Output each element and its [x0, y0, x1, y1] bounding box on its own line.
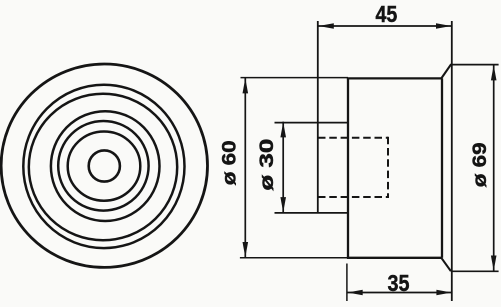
circle outer flange ø69 [1, 64, 207, 267]
dimension ø69 [470, 65, 497, 272]
wire hub bottom edge + ø30 extension [275, 212, 349, 214]
circle center hole [89, 150, 120, 181]
wire flange right face + 45/35 extension [451, 21, 453, 301]
circle bore ø20 [68, 132, 141, 201]
wire flange cone bottom slant [441, 258, 451, 271]
arrow right of 45 [436, 23, 451, 29]
arrow top of ø30 [280, 122, 286, 137]
wire flange bottom edge + ø69 extension [452, 270, 498, 272]
wire hub top edge + ø30 extension [275, 122, 349, 124]
svg-text:45: 45 [376, 1, 398, 27]
circle flange rim [23, 85, 184, 248]
circle cone base [29, 94, 177, 240]
wire flange left face [441, 78, 443, 257]
wire dim line 35 [347, 292, 452, 294]
hidden bore ø20 dashed [318, 137, 388, 198]
svg-text:ø 69: ø 69 [470, 142, 491, 187]
wire bore bottom hidden line [318, 196, 388, 198]
wire ø60 bottom extension [240, 257, 348, 259]
dimension 35 [347, 270, 452, 296]
dimension ø30 [257, 122, 286, 213]
arrow left of 35 [347, 290, 362, 296]
arrow bottom of ø30 [280, 197, 286, 212]
arrow top of ø69 [491, 65, 497, 80]
wire dim line ø60 [244, 78, 246, 258]
side view part outline [240, 21, 499, 301]
wire dim line 45 [318, 25, 452, 27]
wire bore end hidden line [387, 137, 389, 198]
dimension ø60 [220, 78, 249, 258]
arrow left of 45 [319, 23, 334, 29]
svg-text:ø 30: ø 30 [257, 139, 278, 191]
wire hub right face V2 [347, 78, 349, 258]
wire flange cone top slant [441, 65, 451, 79]
arrow right of 35 [436, 290, 451, 296]
wire body bottom edge [347, 257, 442, 259]
wire ø60 top extension [241, 77, 349, 79]
wire bore top hidden line [318, 137, 388, 139]
svg-text:35: 35 [388, 270, 410, 296]
wire dim line ø30 [282, 122, 284, 213]
svg-text:ø 60: ø 60 [220, 140, 241, 185]
arrow bottom of ø60 [243, 242, 249, 257]
wire flange top edge + ø69 extension [450, 64, 499, 66]
arrow top of ø60 [243, 78, 249, 93]
circle body step [51, 111, 160, 221]
wire body top edge [347, 77, 442, 79]
wire dim line ø69 [493, 65, 495, 272]
wire 35 left extension [346, 264, 348, 302]
wire hub left face + 45 extension line V1 [317, 21, 319, 213]
front view concentric circles [1, 64, 207, 267]
arrow bottom of ø69 [491, 256, 497, 271]
dimension 45 [318, 1, 452, 29]
circle hub ø30 [58, 121, 148, 211]
